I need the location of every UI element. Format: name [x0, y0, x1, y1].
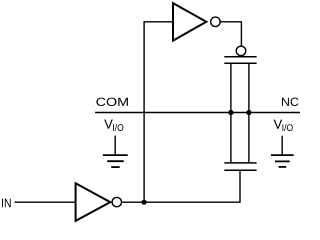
- inverter U1 (top): [173, 3, 220, 41]
- label V_I/O left: [104, 120, 113, 129]
- switch Q1: left channel line: [230, 63, 232, 163]
- wire: COM to NC horizontal: [95, 112, 300, 114]
- switch Q1: bottom channel bar: [224, 162, 256, 164]
- label NC: [282, 98, 298, 106]
- ground left: [103, 136, 128, 168]
- wire: IN input: [15, 201, 76, 203]
- PMOS gate bubble: [236, 46, 246, 56]
- ground right: [271, 136, 294, 167]
- switch Q1: top gate bar: [224, 56, 256, 58]
- switch Q1: bottom gate bar: [224, 169, 256, 171]
- wire: top inverter input + feedback vertical: [144, 22, 173, 202]
- label COM: [96, 98, 127, 106]
- junction dot left channel: [228, 110, 233, 115]
- switch Q1: top channel bar: [224, 62, 256, 64]
- junction dot node at bottom inverter output: [142, 200, 147, 205]
- switch Q1: right channel line: [248, 63, 250, 163]
- inverter U2 (bottom): [76, 183, 122, 221]
- label IN: [2, 199, 11, 208]
- label V_I/O right: [274, 120, 283, 129]
- wire: top inverter output to PMOS gate: [220, 22, 241, 47]
- wire: bottom inverter output to NMOS gate: [122, 170, 241, 202]
- junction dot right channel: [246, 110, 251, 115]
